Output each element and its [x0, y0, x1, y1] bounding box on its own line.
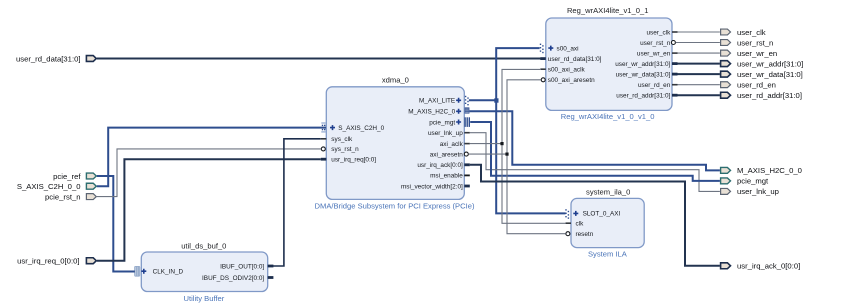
svg-text:IBUF_OUT[0:0]: IBUF_OUT[0:0]: [220, 263, 264, 270]
wire Reg user_rst_n to port: [676, 42, 720, 44]
xdma_0 pin pcie_mgt: [429, 117, 470, 127]
Reg pin s00_axi_aresetn: [541, 77, 595, 84]
xdma_0 pin sys_clk: [321, 136, 353, 143]
Reg pin s00_axi: [540, 44, 579, 54]
wire net M_AXI_LITE: [469, 48, 566, 213]
svg-text:user_rd_en: user_rd_en: [638, 82, 671, 89]
svg-text:System ILA: System ILA: [588, 250, 628, 259]
svg-text:user_lnk_up: user_lnk_up: [428, 130, 463, 137]
svg-text:system_ila_0: system_ila_0: [586, 188, 630, 197]
xdma_0 pin sys_rst_n: [321, 146, 359, 153]
wire util IBUF_OUT to xdma sys_clk: [273, 139, 321, 266]
svg-text:pcie_rst_n: pcie_rst_n: [45, 192, 80, 201]
svg-text:sys_rst_n: sys_rst_n: [331, 146, 359, 153]
svg-text:user_lnk_up: user_lnk_up: [737, 187, 779, 196]
Reg pin user_rd_en: [638, 82, 678, 89]
wire Reg user_wr_addr to port: [678, 63, 720, 65]
wire Reg user_wr_en to port: [678, 52, 720, 54]
svg-text:user_clk: user_clk: [647, 29, 672, 36]
Reg pin user_rd_addr[31:0]: [616, 93, 677, 100]
xdma_0 pin M_AXIS_H2C_0: [408, 107, 469, 115]
svg-text:Reg_wrAXI4lite_v1_0_1: Reg_wrAXI4lite_v1_0_1: [567, 6, 648, 15]
svg-text:clk: clk: [576, 221, 585, 228]
input port user_rd_data[31:0]: [16, 54, 96, 63]
Reg pin user_rst_n: [640, 40, 675, 47]
svg-text:usr_irq_ack[0:0]: usr_irq_ack[0:0]: [417, 162, 463, 169]
svg-text:pcie_mgt: pcie_mgt: [429, 119, 455, 126]
svg-text:s00_axi_aresetn: s00_axi_aresetn: [548, 77, 595, 84]
svg-text:usr_irq_req[0:0]: usr_irq_req[0:0]: [331, 157, 376, 164]
svg-text:axi_aclk: axi_aclk: [440, 141, 464, 148]
xdma_0 pin axi_aclk: [440, 141, 470, 148]
svg-text:CLK_IN_D: CLK_IN_D: [153, 269, 184, 276]
svg-text:S_AXIS_C2H_0: S_AXIS_C2H_0: [338, 125, 384, 132]
svg-text:s00_axi_aclk: s00_axi_aclk: [548, 67, 586, 74]
wire xdma usr_irq_ack to port: [470, 165, 720, 266]
wire S_AXIS_C2H_0_0 to xdma S_AXIS_C2H_0: [97, 128, 326, 187]
Reg pin user_wr_en: [637, 50, 678, 57]
junction axi_aclk: [500, 142, 503, 145]
wire Reg user_rd_addr to port: [678, 94, 720, 96]
output port usr_irq_ack_0[0:0]: [721, 262, 801, 271]
svg-text:sys_clk: sys_clk: [331, 136, 353, 143]
input port pcie_rst_n: [45, 192, 96, 201]
xdma_0 pin user_lnk_up: [428, 130, 470, 137]
input port pcie_ref: [53, 172, 96, 181]
svg-text:Reg_wrAXI4lite_v1_0_v1_0: Reg_wrAXI4lite_v1_0_v1_0: [561, 112, 655, 121]
util pin IBUF_DS_ODIV2[0:0]: [202, 275, 273, 282]
wire usr_irq_req_0 to xdma usr_irq_req: [97, 159, 321, 261]
svg-text:S_AXIS_C2H_0_0: S_AXIS_C2H_0_0: [17, 182, 81, 191]
Reg pin user_clk: [647, 29, 678, 36]
output port user_rd_addr[31:0]: [721, 91, 802, 100]
svg-text:user_rd_addr[31:0]: user_rd_addr[31:0]: [737, 91, 802, 100]
xdma_0 pin msi_vector_width[2:0]: [401, 183, 470, 190]
output port user_rst_n: [721, 38, 774, 47]
Reg pin user_wr_data[31:0]: [616, 71, 678, 78]
Reg pin s00_axi_aclk: [540, 67, 585, 74]
svg-text:M_AXI_LITE: M_AXI_LITE: [419, 98, 455, 105]
input port S_AXIS_C2H_0_0: [17, 182, 96, 191]
svg-text:user_rd_data[31:0]: user_rd_data[31:0]: [16, 54, 81, 63]
output port user_wr_data[31:0]: [721, 70, 803, 79]
svg-text:user_wr_data[31:0]: user_wr_data[31:0]: [616, 71, 671, 78]
svg-text:usr_irq_req_0[0:0]: usr_irq_req_0[0:0]: [17, 257, 79, 266]
Reg pin user_rd_data[31:0]: [540, 56, 601, 63]
util pin IBUF_OUT[0:0]: [220, 263, 273, 270]
ila pin clk: [566, 221, 585, 228]
block system_ila_0: [571, 188, 644, 259]
svg-text:user_rst_n: user_rst_n: [640, 40, 671, 47]
svg-text:user_clk: user_clk: [737, 28, 766, 37]
wire user_rd_data input to Reg: [97, 58, 541, 60]
svg-text:pcie_ref: pcie_ref: [53, 172, 81, 181]
Reg pin user_wr_addr[31:0]: [615, 61, 677, 68]
svg-text:xdma_0: xdma_0: [382, 76, 409, 85]
xdma_0 pin S_AXIS_C2H_0: [321, 122, 384, 132]
wire net axi_aresetn: [469, 80, 566, 234]
svg-text:axi_aresetn: axi_aresetn: [430, 151, 463, 158]
ila pin SLOT_0_AXI: [565, 209, 620, 219]
wire Reg user_rd_en to port: [678, 84, 720, 86]
wire Reg user_clk to port: [678, 31, 720, 33]
svg-text:Utility Buffer: Utility Buffer: [184, 294, 225, 303]
svg-text:pcie_mgt: pcie_mgt: [737, 177, 769, 186]
wire pcie_ref to util CLK_IN_D: [97, 176, 135, 272]
svg-text:user_rd_addr[31:0]: user_rd_addr[31:0]: [616, 93, 670, 100]
svg-text:IBUF_DS_ODIV2[0:0]: IBUF_DS_ODIV2[0:0]: [202, 275, 264, 282]
block xdma_0: [315, 76, 475, 211]
svg-text:user_wr_addr[31:0]: user_wr_addr[31:0]: [737, 59, 803, 68]
output port user_lnk_up: [721, 187, 779, 196]
wire xdma user_lnk_up to port: [470, 133, 720, 192]
output port pcie_mgt: [721, 177, 769, 186]
xdma_0 pin M_AXI_LITE: [419, 96, 469, 106]
block util_ds_buf_0: [141, 241, 267, 303]
svg-text:M_AXIS_H2C_0_0: M_AXIS_H2C_0_0: [737, 166, 802, 175]
wire xdma pcie_mgt to port: [470, 122, 720, 181]
svg-text:M_AXIS_H2C_0: M_AXIS_H2C_0: [408, 109, 455, 116]
util pin CLK_IN_D: [135, 266, 184, 276]
wire net axi_aclk: [470, 69, 566, 223]
svg-text:user_rst_n: user_rst_n: [737, 38, 773, 47]
svg-text:user_rd_en: user_rd_en: [737, 81, 776, 90]
ila pin resetn: [566, 231, 594, 238]
svg-text:user_wr_addr[31:0]: user_wr_addr[31:0]: [615, 61, 670, 68]
xdma_0 pin axi_aresetn: [430, 151, 469, 158]
xdma_0 pin usr_irq_req[0:0]: [321, 157, 376, 164]
svg-text:user_wr_en: user_wr_en: [637, 50, 671, 57]
svg-text:util_ds_buf_0: util_ds_buf_0: [181, 241, 226, 250]
svg-text:s00_axi: s00_axi: [557, 45, 579, 52]
output port M_AXIS_H2C_0_0: [721, 166, 802, 175]
svg-text:user_wr_data[31:0]: user_wr_data[31:0]: [737, 70, 803, 79]
wire xdma M_AXIS_H2C_0 to port: [470, 111, 720, 170]
junction M_AXI_LITE: [494, 98, 498, 102]
svg-text:SLOT_0_AXI: SLOT_0_AXI: [583, 211, 621, 218]
svg-text:DMA/Bridge Subsystem for PCI E: DMA/Bridge Subsystem for PCI Express (PC…: [315, 201, 475, 210]
svg-text:msi_vector_width[2:0]: msi_vector_width[2:0]: [401, 183, 463, 190]
output port user_wr_en: [721, 49, 778, 58]
wire Reg user_wr_data to port: [678, 73, 720, 75]
output port user_wr_addr[31:0]: [721, 59, 804, 68]
output port user_clk: [721, 28, 766, 37]
wire pcie_rst_n to xdma sys_rst_n: [97, 149, 321, 197]
xdma_0 pin usr_irq_ack[0:0]: [417, 162, 469, 169]
svg-text:user_wr_en: user_wr_en: [737, 49, 777, 58]
svg-text:resetn: resetn: [576, 231, 594, 238]
svg-text:usr_irq_ack_0[0:0]: usr_irq_ack_0[0:0]: [737, 262, 800, 271]
input port usr_irq_req_0[0:0]: [17, 257, 96, 266]
output port user_rd_en: [721, 81, 776, 90]
junction axi_aresetn: [505, 153, 508, 156]
svg-text:msi_enable: msi_enable: [430, 173, 463, 180]
svg-text:user_rd_data[31:0]: user_rd_data[31:0]: [548, 56, 602, 63]
block Reg_wrAXI4lite_v1_0_1: [546, 6, 672, 121]
xdma_0 pin msi_enable: [430, 173, 470, 180]
